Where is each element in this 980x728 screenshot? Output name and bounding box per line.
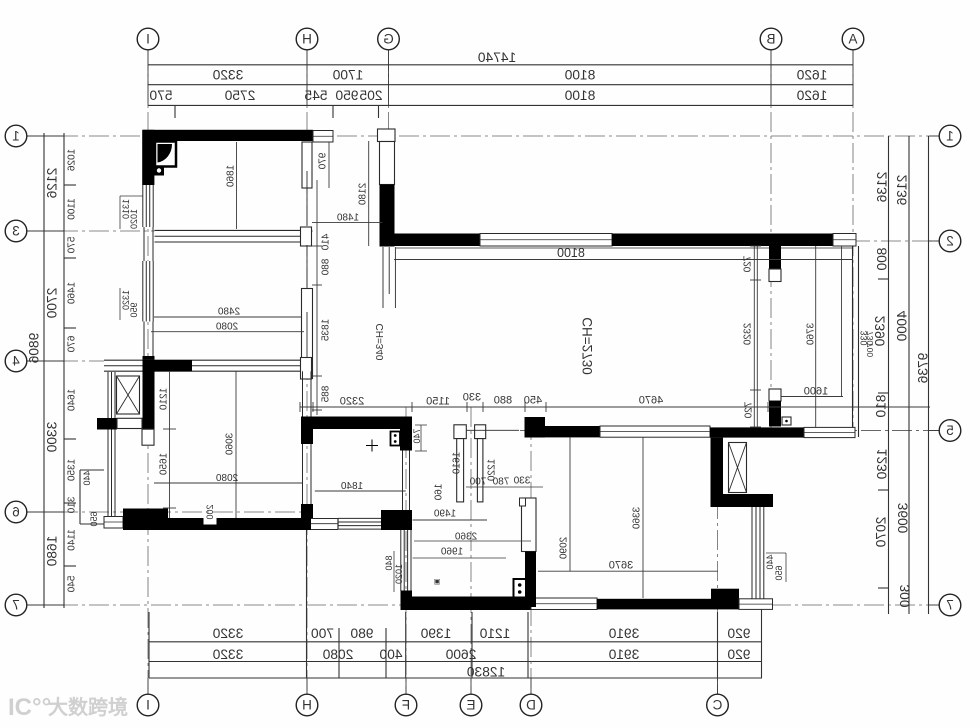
svg-text:880: 880	[494, 395, 512, 407]
svg-text:4: 4	[12, 353, 20, 368]
svg-text:950: 950	[335, 88, 358, 103]
svg-text:440: 440	[82, 470, 92, 485]
svg-text:1350: 1350	[66, 459, 77, 482]
svg-text:205: 205	[359, 88, 382, 103]
svg-text:2600: 2600	[445, 647, 476, 662]
svg-text:6: 6	[12, 504, 20, 519]
svg-text:12830: 12830	[466, 665, 505, 680]
svg-text:3600: 3600	[896, 503, 911, 534]
svg-text:2320: 2320	[340, 396, 364, 408]
svg-text:2070: 2070	[874, 517, 889, 548]
svg-text:330: 330	[513, 475, 530, 486]
svg-text:3300: 3300	[45, 422, 60, 453]
svg-text:920: 920	[727, 626, 750, 641]
svg-text:1210: 1210	[158, 388, 169, 411]
svg-text:2136: 2136	[875, 172, 890, 203]
svg-text:330: 330	[463, 392, 481, 404]
svg-text:8100: 8100	[557, 246, 585, 260]
svg-text:1620: 1620	[796, 68, 827, 83]
svg-text:2080: 2080	[322, 647, 353, 662]
svg-text:E: E	[466, 697, 475, 712]
svg-text:1490: 1490	[433, 508, 456, 519]
svg-text:3760: 3760	[805, 323, 816, 346]
svg-text:410: 410	[320, 234, 331, 251]
svg-text:F: F	[402, 697, 410, 712]
svg-text:1020: 1020	[394, 564, 404, 584]
svg-text:200: 200	[205, 504, 215, 519]
svg-text:885: 885	[320, 386, 331, 403]
svg-text:9736: 9736	[916, 353, 931, 384]
svg-text:大数跨境: 大数跨境	[48, 695, 128, 719]
svg-text:1960: 1960	[440, 546, 463, 557]
svg-text:540: 540	[66, 576, 77, 593]
svg-text:1: 1	[946, 128, 954, 143]
svg-text:I: I	[146, 697, 150, 712]
svg-text:1610: 1610	[451, 452, 462, 475]
svg-text:1835: 1835	[320, 319, 331, 342]
svg-text:3320: 3320	[212, 647, 243, 662]
svg-text:2750: 2750	[224, 88, 255, 103]
svg-text:920: 920	[727, 647, 750, 662]
svg-text:310: 310	[66, 497, 77, 514]
svg-text:1: 1	[12, 128, 20, 143]
svg-text:810: 810	[874, 394, 889, 417]
svg-text:B: B	[766, 31, 775, 46]
svg-text:G: G	[383, 31, 394, 46]
svg-text:740: 740	[412, 428, 422, 443]
svg-text:980: 980	[350, 626, 373, 641]
svg-text:H: H	[302, 697, 312, 712]
svg-text:2126: 2126	[45, 168, 60, 199]
svg-text:3320: 3320	[212, 626, 243, 641]
svg-text:H: H	[302, 31, 312, 46]
svg-text:2480: 2480	[217, 306, 240, 317]
svg-text:I: I	[146, 31, 150, 46]
svg-text:545: 545	[304, 88, 327, 103]
svg-text:650: 650	[774, 565, 784, 580]
svg-text:3360: 3360	[631, 507, 642, 530]
svg-text:1840: 1840	[340, 481, 363, 492]
svg-text:1150: 1150	[426, 396, 450, 408]
svg-text:1020: 1020	[129, 209, 139, 229]
svg-text:14740: 14740	[477, 50, 516, 65]
svg-text:1230: 1230	[875, 449, 890, 480]
svg-text:1100: 1100	[66, 198, 77, 220]
svg-text:300: 300	[898, 584, 913, 607]
svg-text:670: 670	[66, 336, 77, 353]
svg-text:C: C	[712, 697, 722, 712]
svg-text:4000: 4000	[895, 311, 910, 342]
svg-text:3060: 3060	[224, 433, 235, 456]
svg-text:1620: 1620	[796, 88, 827, 103]
svg-text:▣: ▣	[434, 578, 441, 585]
svg-text:400: 400	[379, 647, 402, 662]
svg-text:2320: 2320	[742, 323, 753, 346]
svg-text:8100: 8100	[564, 88, 595, 103]
svg-text:3320: 3320	[212, 68, 243, 83]
svg-text:9806: 9806	[27, 333, 42, 364]
svg-text:2080: 2080	[215, 321, 238, 332]
svg-text:1700: 1700	[332, 68, 363, 83]
svg-text:570: 570	[66, 237, 77, 254]
svg-text:D: D	[526, 697, 536, 712]
svg-text:1860: 1860	[225, 165, 236, 188]
svg-text:4670: 4670	[639, 395, 663, 407]
svg-text:1026: 1026	[66, 149, 77, 172]
svg-text:160: 160	[433, 484, 444, 501]
svg-text:720: 720	[743, 402, 754, 419]
svg-text:450: 450	[524, 395, 542, 407]
svg-text:2136: 2136	[895, 175, 910, 206]
svg-text:2080: 2080	[215, 473, 238, 484]
svg-text:970: 970	[317, 153, 328, 170]
svg-text:720: 720	[742, 256, 753, 273]
svg-text:880: 880	[320, 259, 331, 276]
svg-text:780: 780	[492, 476, 509, 487]
svg-text:1460: 1460	[66, 282, 77, 305]
svg-text:8100: 8100	[564, 68, 595, 83]
svg-text:2090: 2090	[558, 537, 569, 560]
svg-text:CH=2730: CH=2730	[580, 317, 595, 374]
svg-text:800: 800	[875, 247, 890, 270]
svg-text:A: A	[848, 31, 857, 46]
svg-text:7: 7	[946, 597, 954, 612]
svg-text:IC°°: IC°°	[8, 694, 51, 721]
svg-text:1390: 1390	[420, 626, 451, 641]
svg-text:3670: 3670	[609, 560, 633, 572]
svg-text:950: 950	[129, 302, 139, 317]
svg-text:1600: 1600	[804, 386, 828, 398]
svg-text:1680: 1680	[45, 536, 60, 567]
svg-text:700: 700	[469, 476, 486, 487]
svg-text:CH=340: CH=340	[375, 324, 386, 361]
svg-text:2: 2	[946, 233, 954, 248]
svg-text:2700: 2700	[45, 288, 60, 319]
svg-text:2180: 2180	[357, 183, 368, 206]
svg-text:2360: 2360	[454, 531, 477, 542]
svg-text:3910: 3910	[608, 647, 639, 662]
svg-text:1140: 1140	[66, 529, 77, 551]
svg-text:1480: 1480	[336, 212, 359, 223]
svg-text:3910: 3910	[608, 626, 639, 641]
svg-text:1650: 1650	[158, 453, 169, 476]
svg-text:1210: 1210	[479, 626, 510, 641]
svg-text:7: 7	[12, 597, 20, 612]
svg-text:1640: 1640	[66, 389, 77, 412]
svg-text:840: 840	[384, 555, 394, 570]
svg-text:330: 330	[859, 330, 869, 345]
svg-text:3: 3	[12, 223, 20, 238]
svg-text:5: 5	[946, 423, 954, 438]
svg-text:570: 570	[149, 88, 172, 103]
svg-text:700: 700	[311, 626, 334, 641]
